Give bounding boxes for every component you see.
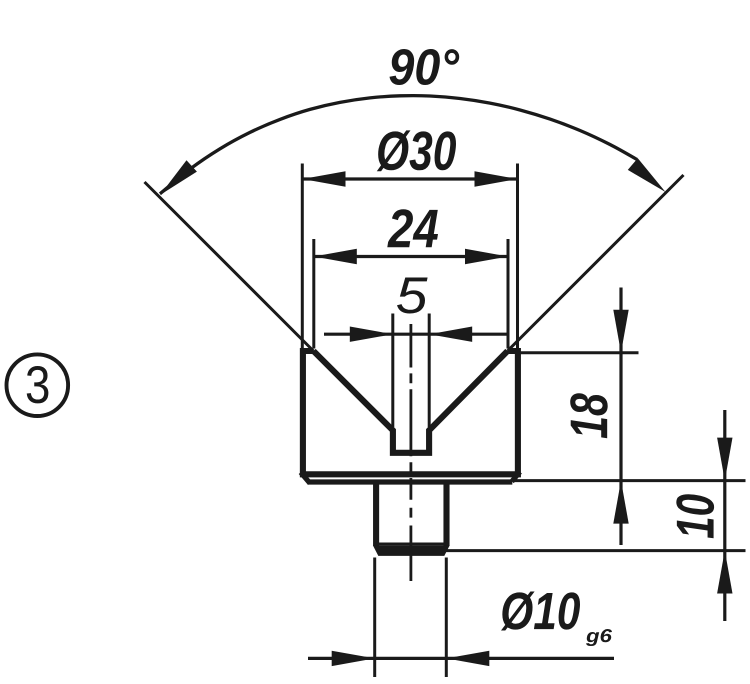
item balloon 3 circle [7,354,69,416]
24 extension line right [507,239,510,349]
24 extension line left [312,239,315,349]
label g6 tolerance [586,629,612,646]
dia10 extension line right (below stud) [445,558,448,678]
24 dimension line [314,255,508,258]
90 degree angle extension line left [145,182,314,351]
V groove and centre slot [314,351,508,453]
24 arrowhead left [314,249,357,264]
dia30 dimension line [303,177,518,180]
dia30 arrowhead left [303,171,346,186]
dia10 arrowhead right (outside pointing left) [446,651,489,666]
label dia10 [501,592,580,631]
90 degree dimension arc [160,96,637,194]
stud right wall [443,482,449,546]
stud left wall [373,482,379,546]
body outline (V-block) [303,351,518,474]
label 18 (rotated) [570,393,608,438]
item balloon 3 text [27,366,49,403]
10 arrowhead top (pointing down) [717,438,732,481]
5 extension line left [391,314,394,428]
5 arrowhead left (outside pointing right) [350,327,393,342]
stud end chamfer line [374,542,449,545]
label 10 (rotated) [676,494,714,538]
dia10 extension line left (below stud) [373,558,376,678]
stud bottom edge [373,545,450,556]
90 degree angle extension line right [508,175,684,351]
bottom chamfer edge line [309,479,513,484]
18 arrowhead top (pointing down) [613,310,628,353]
shared extension line at body bottom [514,479,746,482]
dia30 extension line right [516,164,519,349]
arc arrowhead left [160,160,197,195]
18 arrowhead bottom (pointing up) [613,481,628,524]
centerline (dash-dot) [409,324,412,581]
arc arrowhead right [628,158,666,192]
label dia30 [377,130,456,171]
10 arrowhead bottom (pointing up) [717,551,732,594]
5 arrowhead right (outside pointing left) [429,327,472,342]
10 dimension line [723,410,726,621]
5 extension line right [428,314,431,428]
stud bottom extension line [446,549,746,552]
dia10 dimension line [308,657,614,660]
label 24 [387,209,438,247]
dia30 arrowhead right [475,171,518,186]
bottom chamfer corner left [301,472,310,483]
bottom chamfer corner right [512,472,520,482]
dia10 arrowhead left (outside pointing right) [332,651,375,666]
18 top extension line [521,351,639,354]
label 5 [397,278,428,314]
18 dimension line [619,288,622,546]
24 arrowhead right [465,249,508,264]
label 90deg [390,49,460,85]
5 dimension line [324,333,507,336]
dia30 extension line left [301,164,304,349]
